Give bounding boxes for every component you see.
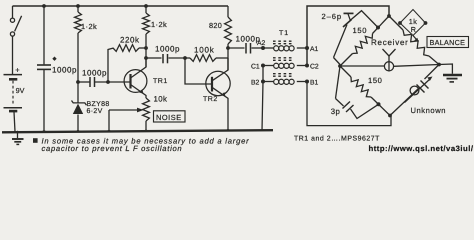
potentiometer 1k R — [389, 16, 403, 30]
capacitor Cx Unknown — [390, 65, 439, 116]
wire B1 to bridge bottom — [307, 82, 391, 126]
svg-text:NOISE: NOISE — [156, 113, 182, 122]
wire C1-B2 to ground rail — [262, 66, 263, 131]
resistor R3 1.2k — [145, 6, 147, 13]
ground under battery — [12, 133, 24, 145]
terminal C1 — [261, 64, 265, 68]
svg-text:C2: C2 — [310, 64, 319, 71]
terminal A2 — [261, 46, 265, 50]
svg-text:150: 150 — [353, 26, 368, 35]
svg-text:1·2k: 1·2k — [81, 22, 97, 31]
transistor TR2 — [206, 58, 230, 131]
svg-text:1000p: 1000p — [82, 69, 107, 78]
svg-text:C1: C1 — [251, 64, 260, 71]
label NOISE box — [154, 111, 186, 122]
resistor 150 upper — [340, 54, 353, 67]
resistor R5 820 — [227, 6, 229, 17]
capacitor 3p — [336, 66, 379, 119]
T1 core dashes row2 — [273, 57, 292, 59]
svg-text:BALANCE: BALANCE — [430, 38, 466, 47]
svg-text:R: R — [411, 25, 416, 34]
capacitor C4 1000p — [228, 43, 263, 54]
svg-text:TR1: TR1 — [153, 78, 168, 85]
potentiometer VR1 10k NOISE — [143, 98, 150, 121]
transistor TR1 — [124, 58, 147, 98]
T1 core dashes row3 — [273, 73, 292, 75]
svg-text:http://www.qsl.net/va3iul/: http://www.qsl.net/va3iul/ — [369, 144, 474, 153]
footnote marker bullet — [33, 138, 38, 143]
trimmer capacitor 2-6p — [334, 11, 379, 65]
svg-text:6·2V: 6·2V — [87, 108, 103, 115]
node TR1 base — [106, 80, 110, 84]
svg-text:Unknown: Unknown — [411, 106, 447, 115]
svg-text:B2: B2 — [251, 80, 260, 87]
battery B1 9V — [4, 36, 23, 131]
wire detector — [340, 65, 439, 67]
capacitor C2 1000p — [78, 77, 131, 87]
svg-text:BZY88: BZY88 — [87, 101, 110, 108]
bridge left corner node — [338, 64, 342, 68]
svg-text:1·2k: 1·2k — [151, 20, 167, 29]
svg-text:1000p: 1000p — [52, 66, 77, 75]
terminal A1 — [305, 46, 309, 50]
capacitor C3 1000p — [146, 54, 185, 63]
svg-text:10k: 10k — [154, 94, 168, 103]
wire TR2 base — [185, 58, 212, 84]
receiver symbol — [383, 49, 396, 72]
wire A1-C2 tie and run to bridge top — [307, 6, 389, 66]
T1 winding A — [263, 47, 274, 49]
svg-text:+: + — [15, 65, 19, 74]
svg-text:Receiver: Receiver — [371, 38, 409, 47]
svg-text:TR2: TR2 — [203, 96, 218, 103]
T1 winding C — [263, 65, 274, 67]
svg-text:T1: T1 — [279, 30, 289, 37]
terminal B2 — [261, 80, 265, 84]
node zener top — [76, 80, 80, 84]
wire top +9V rail — [13, 5, 229, 7]
svg-text:100k: 100k — [194, 46, 215, 55]
svg-text:820: 820 — [209, 21, 222, 30]
terminal C2 — [305, 64, 309, 68]
bridge top corner node — [387, 14, 391, 18]
terminal B1 — [305, 80, 309, 84]
svg-text:B1: B1 — [310, 80, 319, 87]
zener D1 BZY88 6.2V — [72, 82, 87, 132]
resistor R4 100k — [185, 57, 190, 59]
bridge right corner node — [437, 63, 441, 67]
svg-text:220k: 220k — [120, 36, 140, 45]
T1 core dashes row1 — [273, 40, 292, 42]
bridge bottom corner node — [388, 114, 392, 118]
svg-text:1000p: 1000p — [155, 45, 180, 54]
svg-text:2–6p: 2–6p — [322, 12, 343, 21]
T1 winding B — [263, 81, 274, 83]
svg-text:150: 150 — [368, 76, 382, 85]
svg-text:A2: A2 — [257, 40, 266, 47]
resistor R1 1.2k — [77, 6, 79, 12]
label BALANCE box — [427, 37, 469, 48]
footnote marker asterisk — [52, 57, 56, 61]
resistor 150 lower — [340, 66, 351, 77]
ground right — [439, 64, 462, 82]
svg-text:9V: 9V — [16, 86, 25, 95]
wire bottom 0V rail — [2, 130, 273, 132]
svg-text:TR1 and 2….MPS9627T: TR1 and 2….MPS9627T — [294, 136, 380, 143]
switch S1 — [10, 6, 21, 36]
svg-text:A1: A1 — [310, 46, 319, 53]
svg-text:capacitor to prevent L F oscil: capacitor to prevent L F oscillation — [42, 144, 183, 153]
capacitor C1 1000p (asterisk) — [37, 6, 51, 132]
resistor R2 220k — [108, 48, 114, 82]
svg-text:3p: 3p — [331, 107, 341, 116]
